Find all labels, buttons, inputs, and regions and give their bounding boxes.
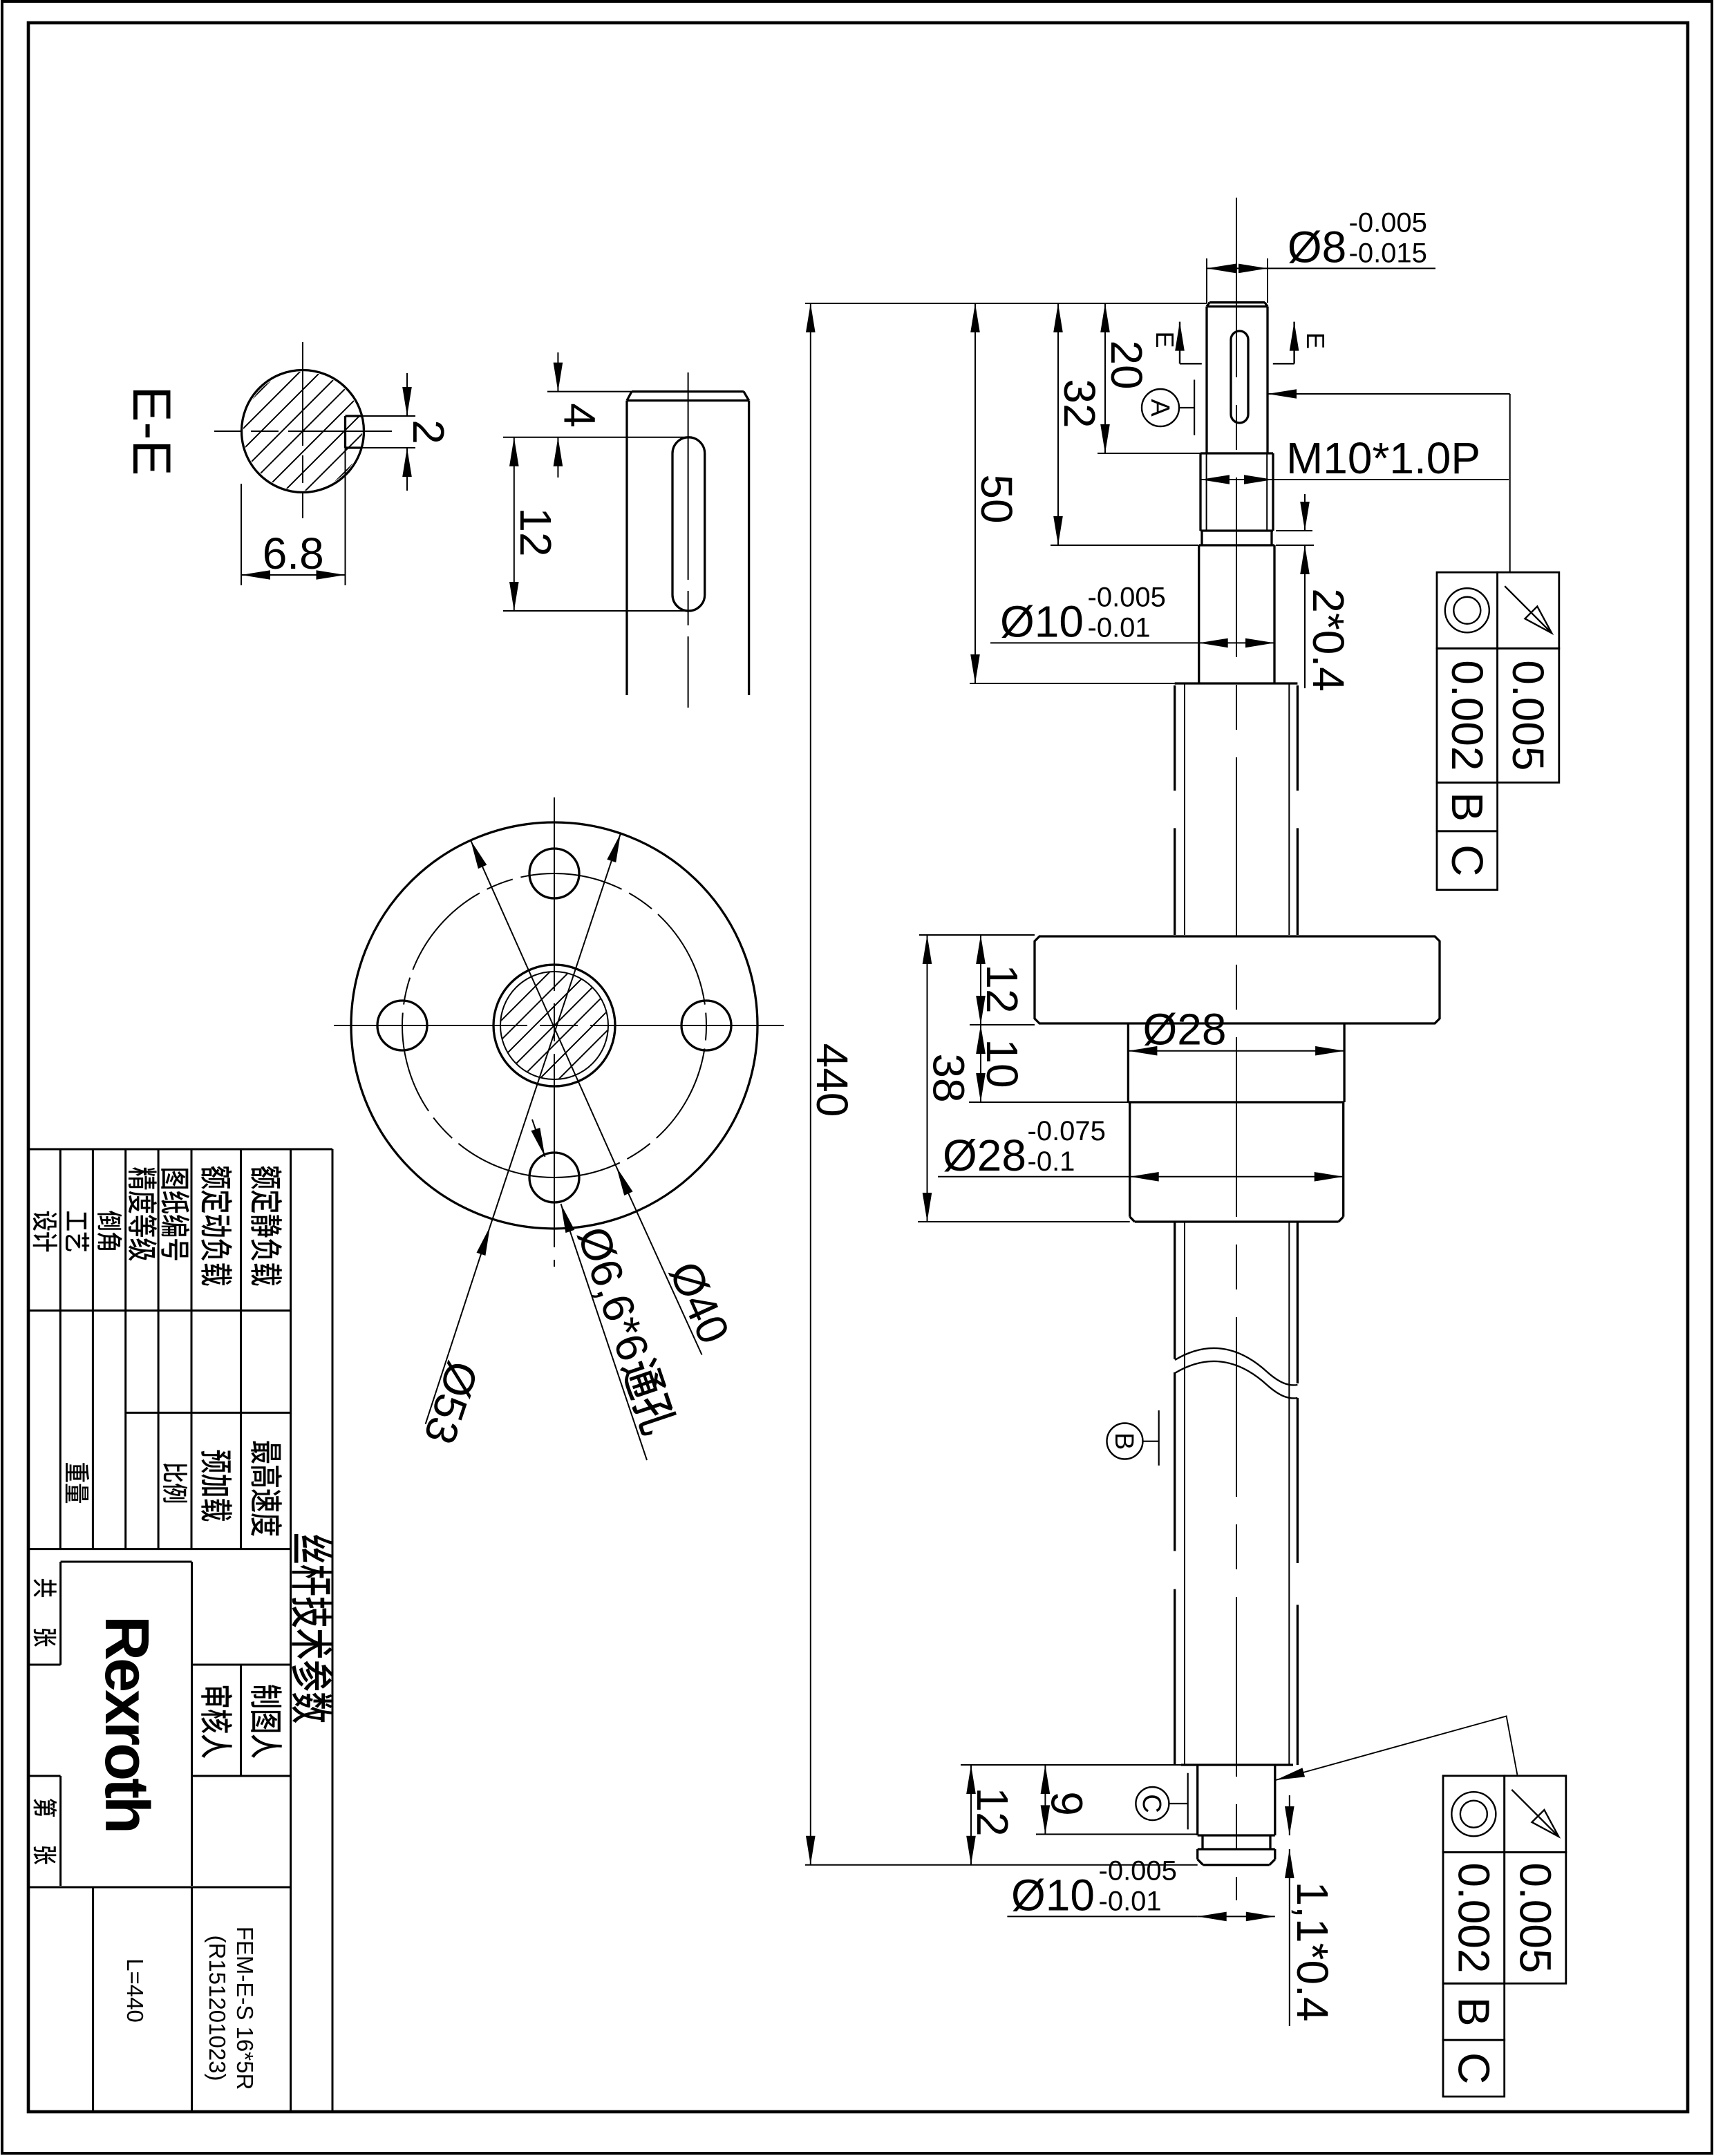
svg-text:32: 32 bbox=[1055, 379, 1104, 428]
svg-text:A: A bbox=[1145, 399, 1174, 417]
svg-text:12: 12 bbox=[977, 964, 1027, 1013]
svg-text:20: 20 bbox=[1102, 340, 1151, 389]
svg-text:12: 12 bbox=[968, 1787, 1017, 1836]
svg-text:C: C bbox=[1137, 1794, 1166, 1813]
svg-text:E: E bbox=[1301, 332, 1330, 349]
svg-text:0.002: 0.002 bbox=[1442, 660, 1492, 770]
svg-text:0.002: 0.002 bbox=[1449, 1862, 1498, 1973]
svg-text:-0.1: -0.1 bbox=[1028, 1146, 1075, 1177]
svg-text:C: C bbox=[1449, 2052, 1498, 2084]
svg-text:2*0.4: 2*0.4 bbox=[1303, 588, 1353, 691]
svg-text:E: E bbox=[1151, 331, 1179, 348]
svg-text:-0.005: -0.005 bbox=[1088, 582, 1166, 612]
svg-text:0.005: 0.005 bbox=[1503, 660, 1553, 770]
svg-text:-0.005: -0.005 bbox=[1099, 1855, 1177, 1886]
svg-text:Rexroth: Rexroth bbox=[92, 1616, 161, 1831]
svg-text:-0.015: -0.015 bbox=[1349, 238, 1427, 268]
svg-text:(R151201023): (R151201023) bbox=[205, 1936, 230, 2081]
svg-text:E-E: E-E bbox=[122, 386, 182, 475]
svg-text:-0.005: -0.005 bbox=[1349, 207, 1427, 238]
svg-text:Ø28: Ø28 bbox=[1143, 1005, 1227, 1055]
svg-text:12: 12 bbox=[511, 507, 561, 556]
svg-text:1,1*0.4: 1,1*0.4 bbox=[1288, 1882, 1337, 2022]
svg-text:M10*1.0P: M10*1.0P bbox=[1286, 433, 1480, 483]
svg-text:FEM-E-S 16*5R: FEM-E-S 16*5R bbox=[232, 1927, 258, 2090]
svg-text:0.005: 0.005 bbox=[1510, 1862, 1560, 1973]
svg-text:B: B bbox=[1109, 1432, 1138, 1450]
svg-text:-0.01: -0.01 bbox=[1099, 1886, 1162, 1916]
svg-text:Ø10: Ø10 bbox=[1000, 596, 1084, 646]
svg-text:-0.01: -0.01 bbox=[1088, 612, 1151, 643]
svg-text:B: B bbox=[1442, 792, 1492, 822]
svg-text:38: 38 bbox=[924, 1053, 974, 1102]
svg-text:Ø28: Ø28 bbox=[943, 1131, 1026, 1180]
svg-text:2: 2 bbox=[404, 419, 453, 444]
svg-text:440: 440 bbox=[807, 1043, 857, 1117]
svg-text:L=440: L=440 bbox=[122, 1958, 148, 2023]
svg-text:Ø8: Ø8 bbox=[1288, 222, 1346, 272]
svg-text:10: 10 bbox=[977, 1039, 1027, 1088]
svg-text:B: B bbox=[1449, 1997, 1498, 2027]
svg-text:4: 4 bbox=[554, 403, 604, 428]
svg-text:C: C bbox=[1442, 844, 1492, 876]
svg-text:9: 9 bbox=[1042, 1791, 1091, 1816]
svg-text:50: 50 bbox=[972, 474, 1021, 523]
svg-text:Ø10: Ø10 bbox=[1011, 1870, 1095, 1920]
svg-text:-0.075: -0.075 bbox=[1028, 1116, 1106, 1146]
svg-text:6.8: 6.8 bbox=[263, 529, 324, 578]
